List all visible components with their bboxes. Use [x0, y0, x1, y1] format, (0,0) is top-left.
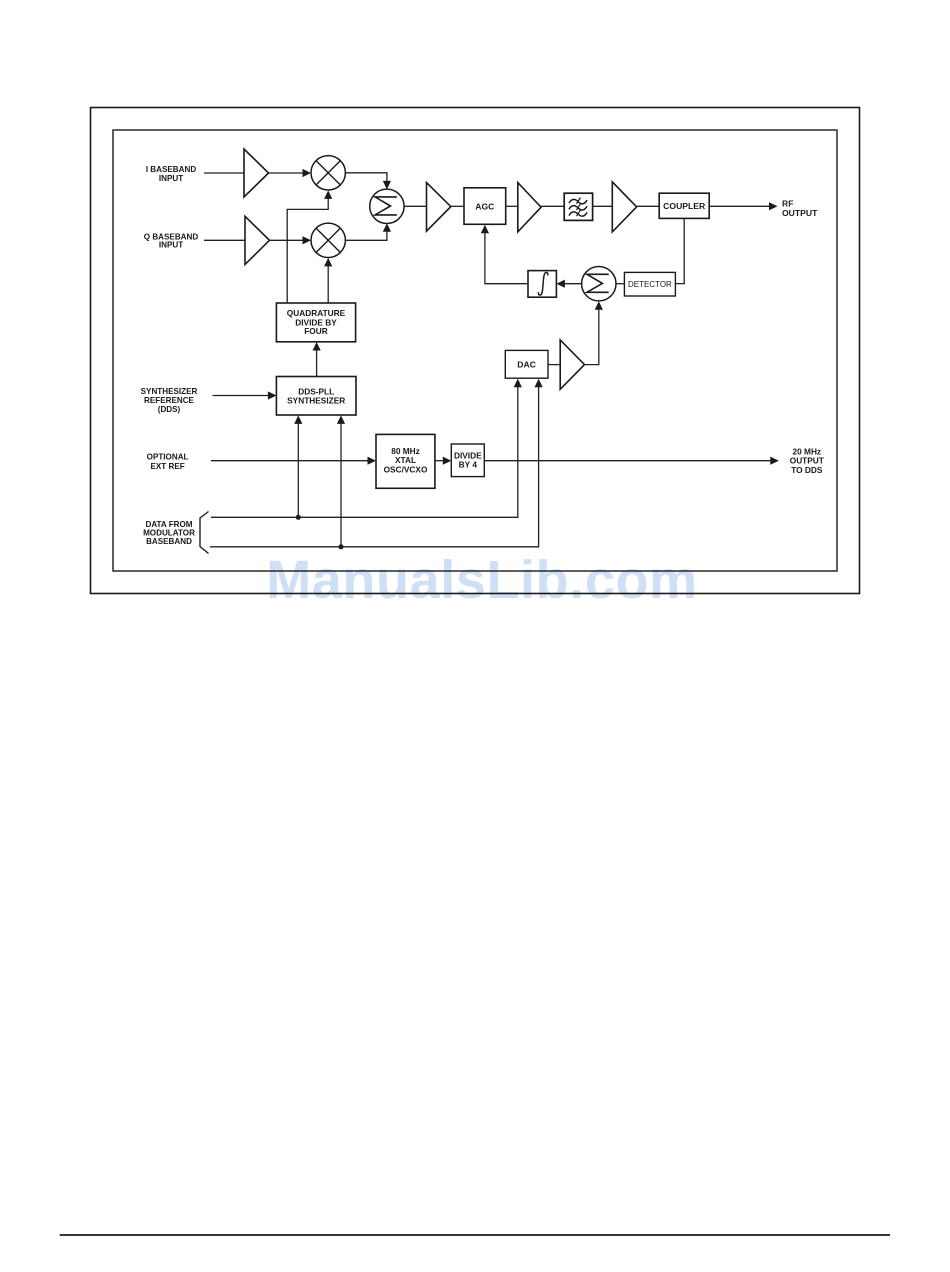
label I BASEBAND INPUT — [146, 165, 197, 183]
wire amplifier 4 to filter — [541, 205, 564, 207]
amplifier 3 — [427, 183, 451, 232]
amplifier Q-path — [245, 216, 270, 264]
wire LO to mixer Q (from quadrature divider) — [324, 258, 332, 303]
wire LO to mixer I (from quadrature divider) — [287, 190, 332, 303]
junction dot on data line 1 — [296, 515, 301, 520]
label DATA FROM MODULATOR BASEBAND — [143, 520, 195, 546]
svg-text:BASEBAND: BASEBAND — [146, 537, 192, 546]
integrator block — [528, 271, 556, 298]
inner frame — [113, 130, 837, 571]
mixer Q — [311, 223, 345, 257]
wire ext ref to oscillator with arrow — [211, 457, 376, 465]
svg-text:OPTIONAL: OPTIONAL — [147, 453, 189, 462]
brace for data bus — [200, 512, 209, 554]
DAC block — [505, 350, 548, 378]
svg-text:BY 4: BY 4 — [459, 460, 478, 470]
label OPTIONAL EXT REF — [147, 453, 189, 471]
svg-text:OUTPUT: OUTPUT — [782, 208, 818, 218]
footer rule — [60, 1234, 890, 1236]
wire AGC to amplifier 4 — [506, 205, 518, 207]
svg-text:INPUT: INPUT — [159, 240, 183, 249]
wire synthesizer reference input with arrow — [213, 391, 277, 399]
svg-text:FOUR: FOUR — [304, 326, 328, 336]
wire synthesizer to quadrature divider with arrow — [313, 342, 321, 377]
wire mixer Q output to summer bottom — [345, 223, 391, 240]
wire oscillator to divider with arrow — [435, 457, 451, 465]
amplifier 6 — [560, 340, 584, 389]
wire amplifier to mixer Q with arrow — [270, 236, 312, 244]
svg-text:ManualsLib.com: ManualsLib.com — [266, 550, 697, 610]
wire amplifier 5 to coupler — [637, 205, 660, 207]
amplifier I-path — [244, 149, 269, 197]
amplifier 5 — [612, 182, 636, 232]
COUPLER block — [659, 193, 709, 218]
watermark ManualsLib.com — [266, 550, 697, 610]
label RF OUTPUT — [782, 199, 818, 219]
outer frame — [91, 108, 860, 594]
wire amplifier 6 up to summer 2 with arrow — [585, 301, 603, 364]
wire integrator to AGC bottom with arrow — [481, 225, 528, 284]
wire mixer I output to summer top — [345, 173, 391, 190]
80 MHz XTAL OSC/VCXO block — [376, 434, 435, 488]
svg-text:TO DDS: TO DDS — [791, 465, 823, 475]
wire divider to 20 MHz output with arrow — [484, 457, 779, 465]
wire filter to amplifier 5 — [593, 205, 613, 207]
svg-text:EXT REF: EXT REF — [151, 462, 185, 471]
wire DAC to amplifier 6 — [548, 364, 560, 366]
amplifier 4 — [518, 183, 541, 232]
svg-text:DAC: DAC — [517, 360, 536, 370]
label 20 MHz OUTPUT TO DDS — [790, 446, 824, 475]
label Q BASEBAND INPUT — [144, 232, 199, 249]
svg-text:AGC: AGC — [475, 202, 494, 212]
wire coupler to RF output with arrow — [709, 202, 777, 210]
wire Q input to amplifier — [204, 239, 245, 241]
svg-text:I BASEBAND: I BASEBAND — [146, 165, 197, 174]
wire I input to amplifier — [204, 172, 244, 174]
svg-text:COUPLER: COUPLER — [663, 201, 706, 211]
wire data line 1 branch to DDS-PLL with arrow — [294, 415, 302, 517]
wire summer 1 to amplifier 3 — [404, 205, 426, 207]
mixer I — [311, 156, 345, 190]
summer sigma 2 — [582, 267, 616, 301]
wire amplifier 3 to AGC — [451, 205, 464, 207]
wire data line 2 branch to DDS-PLL with arrow — [337, 415, 345, 546]
junction dot on data line 2 — [339, 544, 344, 549]
wire data line 1 to DAC with arrow — [211, 379, 522, 518]
AGC block — [464, 188, 506, 225]
svg-text:(DDS): (DDS) — [158, 405, 181, 414]
svg-text:RF: RF — [782, 199, 793, 209]
svg-text:REFERENCE: REFERENCE — [144, 396, 195, 405]
DETECTOR block — [624, 272, 675, 296]
QUADRATURE DIVIDE BY FOUR block — [276, 303, 355, 342]
wire data line 2 to DAC with arrow — [210, 379, 543, 547]
svg-text:OSC/VCXO: OSC/VCXO — [384, 464, 428, 474]
wire coupler down to detector — [675, 218, 684, 283]
DIVIDE BY 4 block — [451, 444, 484, 477]
svg-text:INPUT: INPUT — [159, 174, 183, 183]
svg-text:DETECTOR: DETECTOR — [628, 280, 672, 289]
wire summer 2 to integrator with arrow — [556, 280, 581, 288]
bandpass filter block — [564, 193, 592, 220]
svg-text:SYNTHESIZER: SYNTHESIZER — [141, 387, 198, 396]
wire detector to summer 2 — [616, 283, 624, 285]
DDS-PLL SYNTHESIZER block — [276, 377, 356, 416]
summer sigma 1 — [370, 189, 404, 223]
label SYNTHESIZER REFERENCE (DDS) — [141, 387, 198, 414]
wire amplifier to mixer I with arrow — [269, 169, 312, 177]
svg-text:SYNTHESIZER: SYNTHESIZER — [287, 395, 345, 405]
